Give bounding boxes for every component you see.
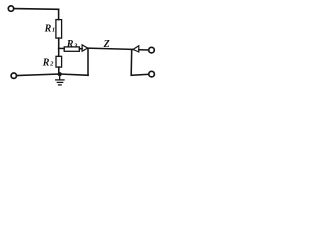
node A (junction R1/R2/R3) bbox=[59, 47, 64, 49]
svg-text:Z: Z bbox=[103, 39, 110, 50]
svg-text:2: 2 bbox=[49, 60, 54, 67]
junction dot (ground node) bbox=[58, 72, 62, 76]
wire Z (cable centre conductor) bbox=[88, 48, 133, 49]
connector plug left (arrow right) bbox=[82, 45, 88, 51]
resistor R3 bbox=[64, 47, 79, 51]
resistor R2 bbox=[56, 56, 62, 67]
wire (right plug to output top terminal) bbox=[139, 49, 149, 51]
svg-text:1: 1 bbox=[52, 26, 55, 33]
wire (node A down to R2) bbox=[58, 48, 60, 56]
label R1 bbox=[44, 24, 56, 35]
wire (top rail) bbox=[14, 8, 59, 11]
label R2 bbox=[42, 58, 54, 69]
label R3 bbox=[66, 39, 78, 50]
wire (R2 bottom to ground junction) bbox=[58, 67, 60, 74]
connector plug right (arrow left) bbox=[133, 46, 139, 52]
wire (right shield drop) bbox=[131, 50, 149, 76]
ground bbox=[56, 74, 64, 85]
terminal (output bottom) bbox=[149, 71, 155, 77]
wire (vertical from top rail to R1) bbox=[58, 9, 60, 19]
svg-text:3: 3 bbox=[73, 42, 78, 49]
wire (R3 to left plug) bbox=[79, 48, 82, 50]
terminal (input bottom) bbox=[11, 73, 16, 78]
wire (bottom rail) bbox=[17, 74, 89, 76]
resistor R1 bbox=[56, 20, 62, 38]
svg-text:R: R bbox=[44, 24, 52, 35]
terminal (output top) bbox=[149, 47, 155, 53]
terminal (input top) bbox=[8, 6, 13, 11]
svg-text:R: R bbox=[42, 58, 50, 69]
wire (R1 bottom to node A) bbox=[58, 38, 60, 48]
wire (left shield drop) bbox=[87, 48, 89, 75]
svg-text:R: R bbox=[66, 39, 74, 50]
